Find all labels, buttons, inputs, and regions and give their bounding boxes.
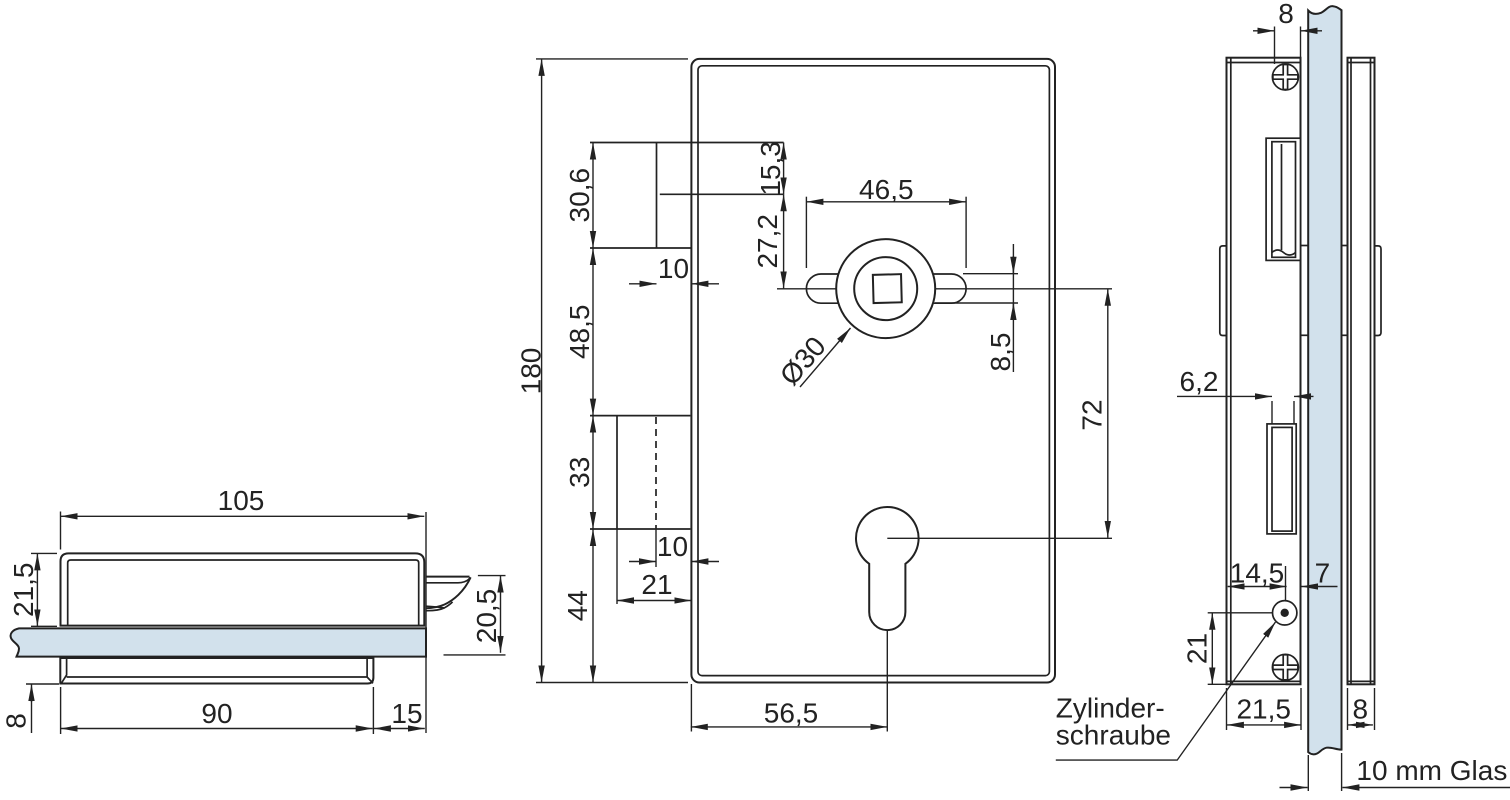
svg-text:15: 15 bbox=[391, 698, 422, 729]
svg-text:8: 8 bbox=[1353, 694, 1369, 725]
svg-text:46,5: 46,5 bbox=[859, 174, 914, 205]
svg-text:21: 21 bbox=[641, 569, 672, 600]
svg-text:8: 8 bbox=[1, 713, 32, 729]
svg-text:21,5: 21,5 bbox=[8, 563, 39, 618]
svg-text:105: 105 bbox=[218, 485, 265, 516]
svg-text:10 mm Glas: 10 mm Glas bbox=[1356, 755, 1507, 786]
svg-text:schraube: schraube bbox=[1056, 719, 1171, 750]
svg-text:180: 180 bbox=[516, 348, 547, 395]
svg-text:10: 10 bbox=[658, 253, 689, 284]
svg-text:56,5: 56,5 bbox=[764, 698, 819, 729]
svg-text:27,2: 27,2 bbox=[752, 214, 783, 268]
svg-text:10: 10 bbox=[657, 531, 688, 562]
svg-text:44: 44 bbox=[562, 590, 593, 621]
svg-text:72: 72 bbox=[1077, 399, 1108, 430]
svg-text:14,5: 14,5 bbox=[1230, 558, 1285, 589]
svg-text:21,5: 21,5 bbox=[1236, 694, 1291, 725]
svg-text:15,3: 15,3 bbox=[755, 141, 786, 196]
svg-text:21: 21 bbox=[1182, 633, 1213, 664]
svg-text:20,5: 20,5 bbox=[471, 589, 502, 644]
svg-text:7: 7 bbox=[1315, 558, 1331, 589]
svg-text:8,5: 8,5 bbox=[985, 333, 1016, 372]
svg-text:90: 90 bbox=[201, 698, 232, 729]
svg-text:33: 33 bbox=[564, 457, 595, 488]
svg-text:6,2: 6,2 bbox=[1180, 366, 1219, 397]
svg-text:30,6: 30,6 bbox=[564, 168, 595, 223]
svg-text:48,5: 48,5 bbox=[564, 305, 595, 360]
svg-text:8: 8 bbox=[1278, 0, 1294, 29]
